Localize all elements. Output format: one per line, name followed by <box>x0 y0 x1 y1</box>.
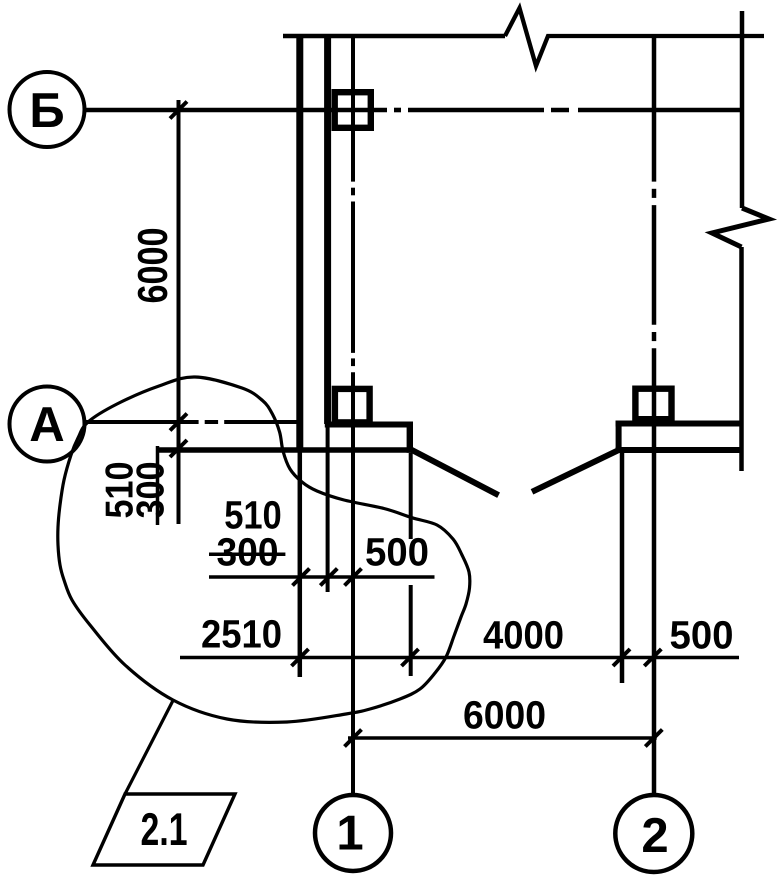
extension line x=300 below wall <box>298 452 303 677</box>
dim text 300 vertical (struck) <box>136 463 164 518</box>
axis circle Б <box>10 72 85 147</box>
dim text 6000 vertical <box>138 229 168 302</box>
wall bottom right cap <box>407 422 413 453</box>
axis Б centerline horizontal (dash-dot) <box>85 108 743 113</box>
flag text 2.1 <box>142 813 187 845</box>
axis label Б <box>33 93 63 127</box>
axis А centerline horizontal (dash-dot) <box>85 420 300 424</box>
column square at axis Б <box>335 92 371 128</box>
axis 1 centerline vertical (dash-dot) <box>351 36 355 794</box>
right wall edge line with break <box>712 11 769 471</box>
dimension row 1 (510/300/500) <box>209 575 435 579</box>
dim text 4000 <box>484 621 563 649</box>
axis label 2 <box>643 818 667 852</box>
wall inner face <box>324 36 331 424</box>
axis 2 centerline vertical (dash-dot) <box>652 36 657 794</box>
dim text 510 vertical <box>105 463 133 518</box>
extension line x=410.5 (gap for 500 text) <box>409 453 413 676</box>
axis circle А <box>10 387 85 462</box>
sloped edge right <box>532 448 622 491</box>
axis label А <box>31 407 64 441</box>
dim text 300 horizontal (struck) <box>217 538 277 566</box>
dim text 6000 row3 <box>464 701 544 729</box>
wall bottom upper thick edge (axis 1 side) <box>325 422 413 428</box>
axis label 1 <box>340 816 363 850</box>
beam upper edge (axis 2 side) <box>616 421 741 427</box>
beam lower edge (axis 2 side) <box>616 447 741 453</box>
dim text 510 horizontal <box>225 501 280 529</box>
column square at axis А / axis 1 <box>335 389 370 423</box>
column square at axis А / axis 2 <box>635 389 671 420</box>
axis circle 2 <box>615 795 692 872</box>
detail flag parallelogram 2.1 <box>93 794 235 865</box>
dim text 500 row1 <box>366 538 427 566</box>
strike line through rotated 300 <box>156 446 160 525</box>
sloped edge left <box>410 449 499 495</box>
extension line x=622 below beam <box>620 453 625 683</box>
wall top edge line with break <box>283 8 764 66</box>
dimension row 3 (6000) <box>348 736 657 740</box>
dim text 2510 <box>202 620 280 648</box>
wall outer face <box>296 36 303 452</box>
dim text 500 row2 <box>671 621 732 649</box>
wall bottom lower edge (axis 1 side) <box>157 447 413 453</box>
axis circle 1 <box>315 795 391 871</box>
dimension ticks <box>170 102 662 747</box>
beam left cap <box>616 421 622 454</box>
extension line x=328 below wall <box>326 424 330 592</box>
dimension row 2 (2510/4000/500) <box>180 656 739 660</box>
revision cloud <box>58 377 470 722</box>
dimension line vertical 6000 (x=178.5) <box>177 100 181 524</box>
strike line through horizontal 300 <box>209 553 285 557</box>
leader line from cloud to flag <box>125 701 173 795</box>
